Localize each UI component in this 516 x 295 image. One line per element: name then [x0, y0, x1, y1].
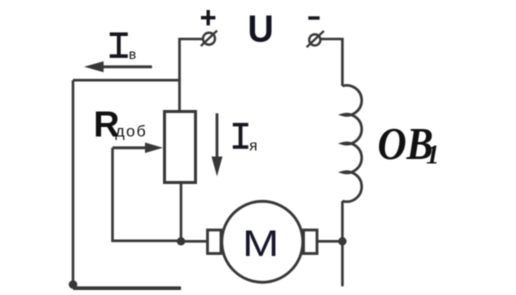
svg-text:U: U: [248, 6, 274, 49]
svg-text:OB: OB: [378, 120, 434, 170]
svg-text:доб: доб: [115, 124, 147, 141]
svg-text:1: 1: [426, 140, 440, 170]
svg-text:в: в: [129, 46, 136, 62]
svg-text:я: я: [249, 138, 257, 155]
svg-text:M: M: [242, 222, 279, 264]
